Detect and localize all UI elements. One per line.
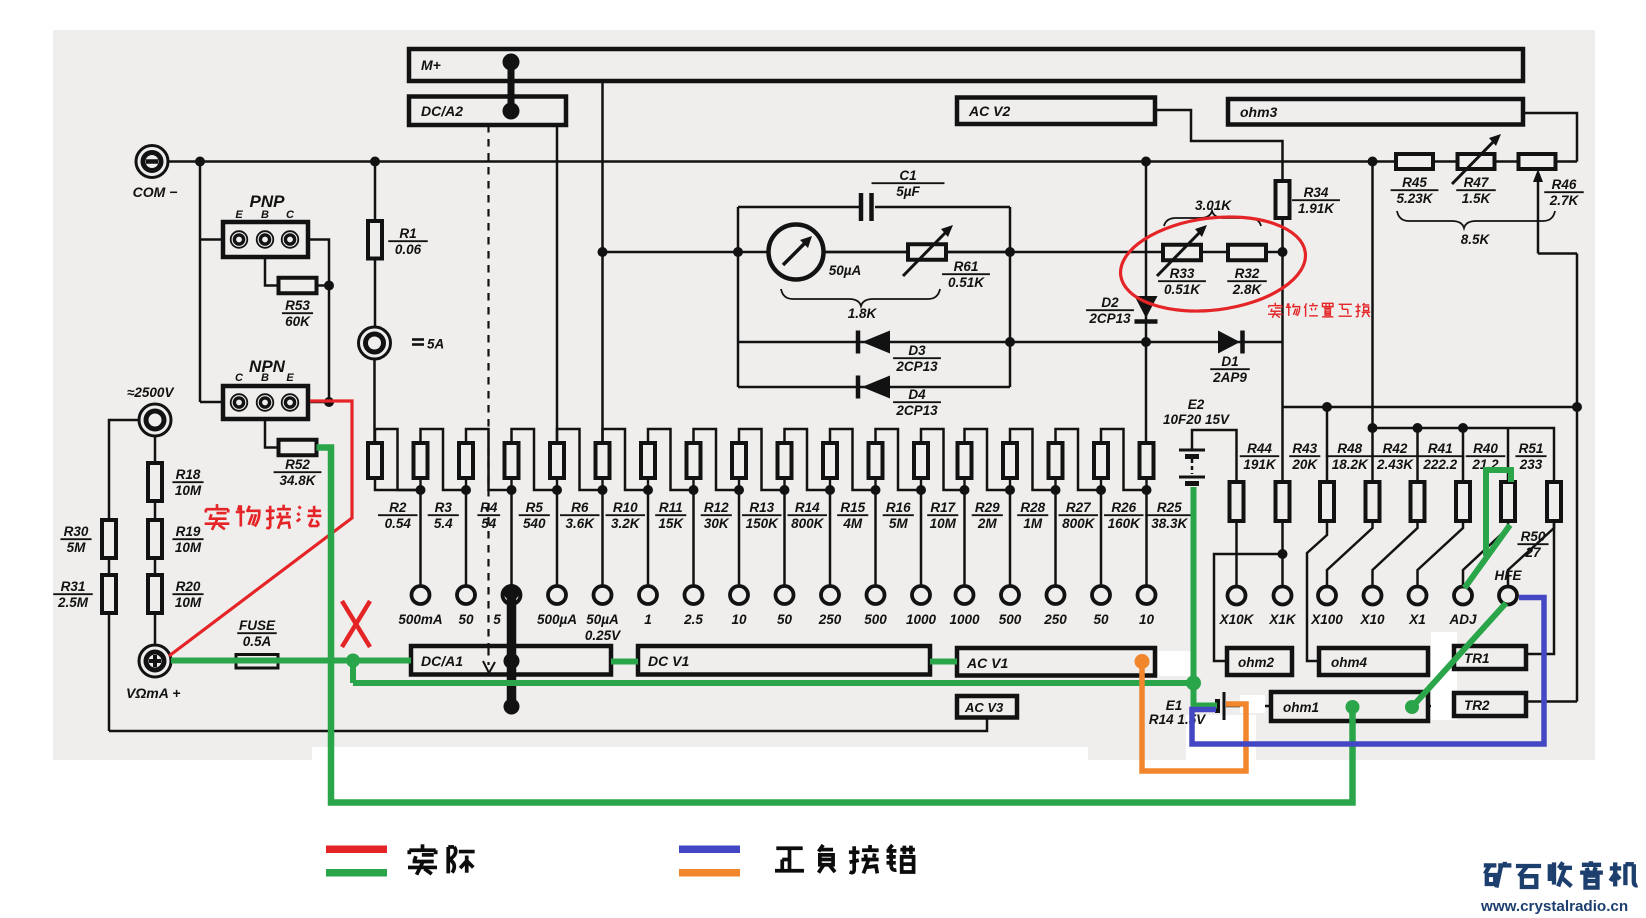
- wire R34 down vertical: [1281, 218, 1284, 482]
- svg-text:3.2K: 3.2K: [611, 516, 641, 531]
- svg-text:DC/A2: DC/A2: [421, 103, 463, 119]
- wire ohm rail y=407: [1283, 406, 1578, 409]
- terminal 1000: [912, 586, 930, 604]
- wire DC/A2 feed vertical: [556, 125, 559, 443]
- node D2 top: [1141, 157, 1151, 167]
- node rail 1372: [1368, 423, 1378, 433]
- svg-text:50: 50: [777, 612, 793, 627]
- wire bridge R4 top to next tap: [466, 429, 512, 490]
- svg-text:50: 50: [458, 612, 474, 627]
- svg-text:250: 250: [1043, 612, 1067, 627]
- legend blue line: [679, 846, 740, 854]
- svg-text:10F20 15V: 10F20 15V: [1163, 412, 1230, 427]
- switch bar AC V2: [957, 98, 1155, 125]
- axis arrowhead: [483, 662, 495, 674]
- wire bridge R3 top to next tap: [421, 429, 467, 490]
- svg-text:R30: R30: [64, 524, 89, 539]
- wire PNP right to vertical: [308, 240, 329, 403]
- svg-text:R28: R28: [1020, 500, 1045, 515]
- svg-text:2.5: 2.5: [683, 612, 703, 627]
- terminal ADJ: [1454, 587, 1472, 605]
- terminal 250: [1047, 586, 1065, 604]
- svg-text:54: 54: [481, 516, 497, 531]
- svg-text:R34: R34: [1304, 185, 1329, 200]
- resistor R20: [148, 575, 162, 613]
- terminal 50: [457, 586, 475, 604]
- diode D3: [862, 331, 890, 354]
- svg-text:1000: 1000: [906, 612, 937, 627]
- wire X10K lead: [1235, 521, 1238, 587]
- terminal X1K: [1274, 587, 1292, 605]
- svg-text:R10: R10: [613, 500, 638, 515]
- wire right vertical to TR2: [1526, 700, 1577, 703]
- brace 8.5K: [1397, 211, 1555, 228]
- resistor ohm-section col 1236.5: [1230, 482, 1244, 521]
- svg-text:X100: X100: [1310, 612, 1343, 627]
- svg-text:20K: 20K: [1291, 457, 1318, 472]
- svg-text:R51: R51: [1519, 441, 1544, 456]
- wire tap down 250: [1054, 490, 1057, 587]
- green wire jog down: [350, 661, 356, 684]
- node tap 1000: [920, 478, 922, 490]
- svg-text:R44: R44: [1247, 441, 1272, 456]
- terminal 1: [639, 586, 657, 604]
- node rail 1417: [1413, 423, 1423, 433]
- svg-text:VΩmA +: VΩmA +: [126, 685, 180, 701]
- wire tap down 50: [1100, 490, 1103, 587]
- wire bridge R2 top to next tap: [375, 429, 421, 490]
- wire right edge vertical: [1576, 254, 1579, 702]
- wire R53 right: [317, 284, 330, 287]
- svg-text:R52: R52: [285, 457, 310, 472]
- terminal 500: [1001, 586, 1019, 604]
- wire ohm4 tap: [1307, 521, 1327, 661]
- resistor R34: [1276, 181, 1290, 218]
- terminal 10: [1138, 586, 1156, 604]
- red X mark: [342, 601, 370, 647]
- resistor R27: [1049, 443, 1063, 478]
- resistor R15: [823, 443, 837, 478]
- resistor R52: [279, 440, 317, 456]
- svg-text:1M: 1M: [1023, 516, 1043, 531]
- svg-text:R26: R26: [1111, 500, 1136, 515]
- wire tap down 1000: [963, 490, 966, 587]
- svg-text:R14: R14: [795, 500, 820, 515]
- white band bottom: [312, 747, 1088, 760]
- resistor R4: [459, 443, 473, 478]
- svg-text:500: 500: [864, 612, 887, 627]
- wire col 1463 top: [1462, 428, 1465, 482]
- wire tap down 1000: [920, 490, 923, 587]
- svg-text:R15: R15: [840, 500, 865, 515]
- node rail 1463: [1458, 423, 1468, 433]
- rotary wiper bar bottom: [507, 592, 517, 707]
- node tap 500: [874, 478, 876, 490]
- node R53 junction: [324, 281, 334, 291]
- svg-text:2.43K: 2.43K: [1376, 457, 1414, 472]
- svg-text:2.5M: 2.5M: [57, 595, 89, 610]
- node tap 2.5: [692, 478, 694, 490]
- svg-text:800K: 800K: [791, 516, 825, 531]
- svg-text:500mA: 500mA: [398, 612, 442, 627]
- resistor ohm-section col 1282.5: [1276, 482, 1290, 521]
- switch bar DC V1: [638, 646, 930, 675]
- green wire R40 top loop: [1486, 470, 1511, 556]
- svg-text:1.91K: 1.91K: [1298, 201, 1335, 216]
- wire X1 diagonal lead: [1418, 521, 1464, 587]
- green wire R40 bottom to ADJ: [1465, 525, 1511, 588]
- svg-text:5A: 5A: [427, 337, 444, 352]
- wire ohm3 right elbow: [1523, 113, 1577, 162]
- svg-text:1000: 1000: [949, 612, 980, 627]
- svg-text:500: 500: [999, 612, 1022, 627]
- resistor ohm-section col 1372.5: [1366, 482, 1380, 521]
- wire X1K lead: [1281, 521, 1284, 587]
- svg-text:C: C: [235, 372, 244, 384]
- svg-text:R50: R50: [1521, 529, 1546, 544]
- wire AC ladder feed: [1145, 342, 1148, 443]
- switch bar M+: [409, 49, 1523, 81]
- svg-text:0.51K: 0.51K: [948, 275, 985, 290]
- wire E1 to ohm1: [1226, 705, 1271, 708]
- wire R1 to 5A terminal: [374, 259, 377, 328]
- blue wire HFE to E1: [1192, 598, 1544, 745]
- svg-text:E: E: [235, 209, 243, 221]
- legend red line: [326, 846, 387, 854]
- node R32 right: [1278, 247, 1288, 257]
- svg-text:R45: R45: [1402, 175, 1427, 190]
- wire bridge R11 top to next tap: [648, 429, 694, 490]
- svg-text:2CP13: 2CP13: [895, 359, 938, 374]
- legend label actual: [408, 844, 437, 874]
- resistor R26: [1094, 443, 1108, 478]
- svg-text:2.8K: 2.8K: [1232, 282, 1263, 297]
- svg-text:R46: R46: [1552, 177, 1577, 192]
- terminal HFE: [1499, 587, 1517, 605]
- svg-text:E2: E2: [1188, 397, 1205, 412]
- svg-text:R3: R3: [435, 500, 453, 515]
- wire R2 bottom elbow: [375, 478, 421, 490]
- wire bridge R10 top to next tap: [603, 429, 649, 490]
- svg-text:FUSE: FUSE: [239, 618, 276, 633]
- resistor R28: [1003, 443, 1017, 478]
- wire bridge R28 top to next tap: [1010, 429, 1056, 490]
- resistor R30: [102, 520, 116, 558]
- svg-text:R33: R33: [1170, 266, 1195, 281]
- wire R46 wiper to right vertical: [1538, 252, 1577, 255]
- node COM junction: [195, 157, 205, 167]
- svg-text:R4: R4: [480, 500, 498, 515]
- terminal X1: [1409, 587, 1427, 605]
- white patch left of TR1: [1431, 632, 1457, 720]
- terminal X10K: [1228, 587, 1246, 605]
- svg-text:R48: R48: [1337, 441, 1362, 456]
- svg-text:60K: 60K: [285, 314, 311, 329]
- resistor R17: [914, 443, 928, 478]
- terminal 10: [730, 586, 748, 604]
- svg-text:R18: R18: [176, 467, 201, 482]
- svg-text:5.4: 5.4: [434, 516, 453, 531]
- svg-text:150K: 150K: [746, 516, 780, 531]
- node tap 500&#181;A: [556, 478, 558, 490]
- svg-text:15K: 15K: [658, 516, 684, 531]
- svg-text:≈2500V: ≈2500V: [127, 385, 174, 400]
- resistor R18: [148, 463, 162, 501]
- wire bridge R16 top to next tap: [876, 429, 922, 490]
- resistor R10: [596, 443, 610, 478]
- wire bridge R5 top to next tap: [512, 429, 558, 490]
- wire COM- bus y=162: [168, 160, 1577, 163]
- resistor R2: [368, 443, 382, 478]
- svg-text:5M: 5M: [889, 516, 909, 531]
- node tap 50: [783, 478, 785, 490]
- svg-text:500µA: 500µA: [537, 612, 577, 627]
- wire D3/D1 line y=342: [738, 341, 1283, 344]
- green wire to E1 battery: [1194, 683, 1218, 706]
- wire col 1372 long vertical: [1371, 162, 1374, 483]
- dashed axis overlay inside DC/A1: [487, 648, 489, 665]
- connector NPN: [223, 386, 308, 419]
- wire meter line y=252 from M+ feed to R32: [603, 251, 1284, 254]
- wire bridge R26 top to next tap: [1101, 429, 1147, 490]
- wire bridge R13 top to next tap: [739, 429, 785, 490]
- svg-text:5.23K: 5.23K: [1396, 191, 1433, 206]
- wire tap down 500: [1009, 490, 1012, 587]
- red annotation shiwujiefa: [205, 504, 230, 530]
- wire bridge R17 top to next tap: [921, 429, 965, 490]
- svg-text:X1K: X1K: [1268, 612, 1297, 627]
- green wire ohm1 to HFE diagonal: [1412, 603, 1506, 707]
- wire X10 diagonal lead: [1373, 521, 1418, 587]
- svg-text:ohm3: ohm3: [1240, 104, 1278, 120]
- wire D2 vertical: [1145, 162, 1148, 343]
- svg-text:D4: D4: [908, 387, 926, 402]
- diode D1: [1218, 331, 1240, 354]
- wire tap down 5: [510, 490, 513, 587]
- svg-text:0.25V: 0.25V: [585, 628, 621, 643]
- legend label polarity reversed: [775, 848, 804, 870]
- connector PNP: [223, 222, 308, 257]
- svg-text:R43: R43: [1292, 441, 1317, 456]
- svg-text:E: E: [286, 372, 294, 384]
- wire bridge R6 top to next tap: [557, 429, 603, 490]
- wire bridge R14 top to next tap: [785, 429, 831, 490]
- node tap 50&#181;A: [601, 478, 603, 490]
- legend green line: [326, 869, 387, 877]
- terminal 2.5: [685, 586, 703, 604]
- svg-text:ohm2: ohm2: [1238, 655, 1274, 670]
- svg-text:R53: R53: [285, 298, 310, 313]
- terminal 500: [867, 586, 885, 604]
- terminal 50: [1092, 586, 1110, 604]
- svg-text:R5: R5: [526, 500, 544, 515]
- svg-text:X10K: X10K: [1219, 612, 1255, 627]
- wire bottom rail: [109, 718, 987, 732]
- green wire R52 loop: [317, 448, 1353, 803]
- node tap 1000: [963, 478, 965, 490]
- dashed rotor axis line: [487, 125, 489, 666]
- node NPN right junction: [324, 397, 334, 407]
- node tap 50: [465, 478, 467, 490]
- switch bar ohm3: [1228, 99, 1523, 125]
- wire R61 right: [946, 251, 1010, 254]
- svg-text:R31: R31: [61, 579, 86, 594]
- green node E1 junction: [1186, 676, 1201, 691]
- red ellipse around R33 R32: [1115, 207, 1311, 321]
- green node ohm1 left: [1346, 700, 1360, 714]
- resistor R32: [1228, 245, 1266, 261]
- node rail R48 top: [1322, 402, 1332, 412]
- svg-text:8.5K: 8.5K: [1461, 232, 1491, 247]
- svg-text:5: 5: [493, 612, 501, 627]
- svg-text:www.crystalradio.cn: www.crystalradio.cn: [1480, 898, 1628, 915]
- resistor R14: [778, 443, 792, 478]
- terminal COM-: [136, 146, 168, 178]
- wire tap down 1: [647, 490, 650, 587]
- resistor R11: [641, 443, 655, 478]
- switch bar DC/A1: [411, 646, 611, 675]
- rheostat R61: [908, 244, 946, 260]
- wire col 1508 top: [1507, 428, 1510, 482]
- switch bar DC/A2: [409, 97, 566, 126]
- svg-text:0.5A: 0.5A: [243, 634, 272, 649]
- terminal X100: [1318, 587, 1336, 605]
- svg-text:10M: 10M: [175, 540, 202, 555]
- switch bar ohm2: [1227, 648, 1292, 675]
- battery E2 10F20 15V: [1192, 430, 1237, 482]
- wire bridge R15 top to next tap: [830, 429, 876, 490]
- wire tap down 50&#181;A: [601, 490, 604, 587]
- svg-text:0.06: 0.06: [395, 242, 422, 257]
- resistor R45: [1396, 154, 1433, 169]
- resistor R53: [279, 278, 317, 294]
- svg-text:TR2: TR2: [1464, 698, 1490, 713]
- terminal X10: [1364, 587, 1382, 605]
- green wire long horizontal y=683: [353, 680, 1194, 686]
- wire NPN B to R52: [265, 419, 279, 448]
- wire 2500V down branch: [154, 436, 157, 645]
- white patch below E1: [1186, 715, 1256, 770]
- wire HFE diagonal lead: [1508, 521, 1554, 587]
- resistor R16: [869, 443, 883, 478]
- svg-text:R12: R12: [704, 500, 729, 515]
- capacitor C1: [859, 193, 864, 221]
- terminal 5: [503, 586, 521, 604]
- svg-text:R32: R32: [1235, 266, 1260, 281]
- svg-text:COM −: COM −: [133, 184, 178, 200]
- svg-text:R16: R16: [886, 500, 911, 515]
- node tap 5: [510, 478, 512, 490]
- svg-text:E1: E1: [1166, 698, 1183, 713]
- svg-text:10M: 10M: [175, 483, 202, 498]
- svg-text:2M: 2M: [977, 516, 998, 531]
- svg-text:R42: R42: [1383, 441, 1408, 456]
- wire tap down 500&#181;A: [556, 490, 559, 587]
- node loop-right meter line: [1005, 247, 1015, 257]
- node loop-left meter line: [733, 247, 743, 257]
- switch bar AC V1: [957, 648, 1155, 676]
- wire 5A to shunt ladder: [373, 359, 376, 443]
- svg-text:10M: 10M: [175, 595, 202, 610]
- rotary wiper bar between M+ and DC/A2: [508, 62, 515, 111]
- svg-text:AC V3: AC V3: [964, 700, 1004, 715]
- svg-text:2AP9: 2AP9: [1212, 370, 1247, 385]
- terminal VOhmmA+: [139, 645, 171, 677]
- svg-text:3.6K: 3.6K: [565, 516, 595, 531]
- node tap 500mA: [419, 478, 421, 490]
- terminal 50&#181;A: [594, 586, 612, 604]
- node right vertical / ohm rail: [1572, 402, 1582, 412]
- svg-text:222.2: 222.2: [1422, 457, 1457, 472]
- wire tap down 500mA: [419, 490, 422, 587]
- resistor R29: [958, 443, 972, 478]
- battery E1 / R14: [1223, 692, 1226, 720]
- switch bar TR1: [1454, 646, 1526, 669]
- resistor R12: [687, 443, 701, 478]
- svg-text:HFE: HFE: [1495, 568, 1523, 583]
- wire AC V2 to R34 elbow: [1155, 110, 1283, 181]
- terminal 2500V: [139, 404, 171, 436]
- svg-text:ohm1: ohm1: [1283, 700, 1319, 715]
- green wire DC V1 to AC V1: [930, 659, 957, 665]
- svg-text:D1: D1: [1221, 354, 1238, 369]
- terminal 500&#181;A: [548, 586, 566, 604]
- wire ohm1 to TR2 (mostly erased): [1428, 705, 1454, 708]
- resistor R3: [414, 443, 428, 478]
- red annotation swap note: [1268, 303, 1283, 318]
- svg-text:B: B: [261, 209, 269, 221]
- svg-text:10: 10: [1139, 612, 1155, 627]
- wire col 1327 top: [1326, 407, 1329, 482]
- node tap 10: [738, 478, 740, 490]
- orange node AC V1: [1135, 654, 1150, 669]
- svg-text:R19: R19: [176, 524, 201, 539]
- svg-text:0.51K: 0.51K: [1164, 282, 1201, 297]
- wire tap down 500: [874, 490, 877, 587]
- svg-text:R61: R61: [954, 259, 979, 274]
- svg-text:ohm4: ohm4: [1331, 655, 1367, 670]
- svg-text:540: 540: [523, 516, 546, 531]
- wire PNP B to R53: [265, 257, 279, 286]
- resistor R13: [732, 443, 746, 478]
- green node ohm1 right: [1405, 700, 1419, 714]
- wire tap down 50: [783, 490, 786, 587]
- svg-text:ADJ: ADJ: [1448, 612, 1476, 627]
- switch bar ohm4: [1319, 648, 1428, 675]
- wire bridge R29 top to next tap: [965, 429, 1011, 490]
- svg-text:50: 50: [1093, 612, 1109, 627]
- svg-text:800K: 800K: [1062, 516, 1096, 531]
- svg-text:2.7K: 2.7K: [1549, 193, 1580, 208]
- wire bridge R12 top to next tap: [694, 429, 740, 490]
- svg-text:R17: R17: [930, 500, 956, 515]
- white patch right of AC V1: [1158, 651, 1194, 676]
- svg-text:R2: R2: [389, 500, 407, 515]
- svg-text:R27: R27: [1066, 500, 1092, 515]
- green wire E2 bottom vertical: [1191, 487, 1197, 683]
- resistor ohm-section col 1417.5: [1411, 482, 1425, 521]
- wire ADJ diagonal lead: [1463, 521, 1508, 587]
- svg-text:38.3K: 38.3K: [1151, 516, 1188, 531]
- svg-text:191K: 191K: [1243, 457, 1277, 472]
- svg-text:D2: D2: [1101, 295, 1119, 310]
- green node fuse junction: [346, 654, 360, 668]
- node ohm2 tap: [1278, 549, 1288, 559]
- resistor R1: [368, 221, 382, 259]
- svg-text:250: 250: [818, 612, 842, 627]
- terminal 500mA: [412, 586, 430, 604]
- wire tap down 10: [1145, 490, 1148, 587]
